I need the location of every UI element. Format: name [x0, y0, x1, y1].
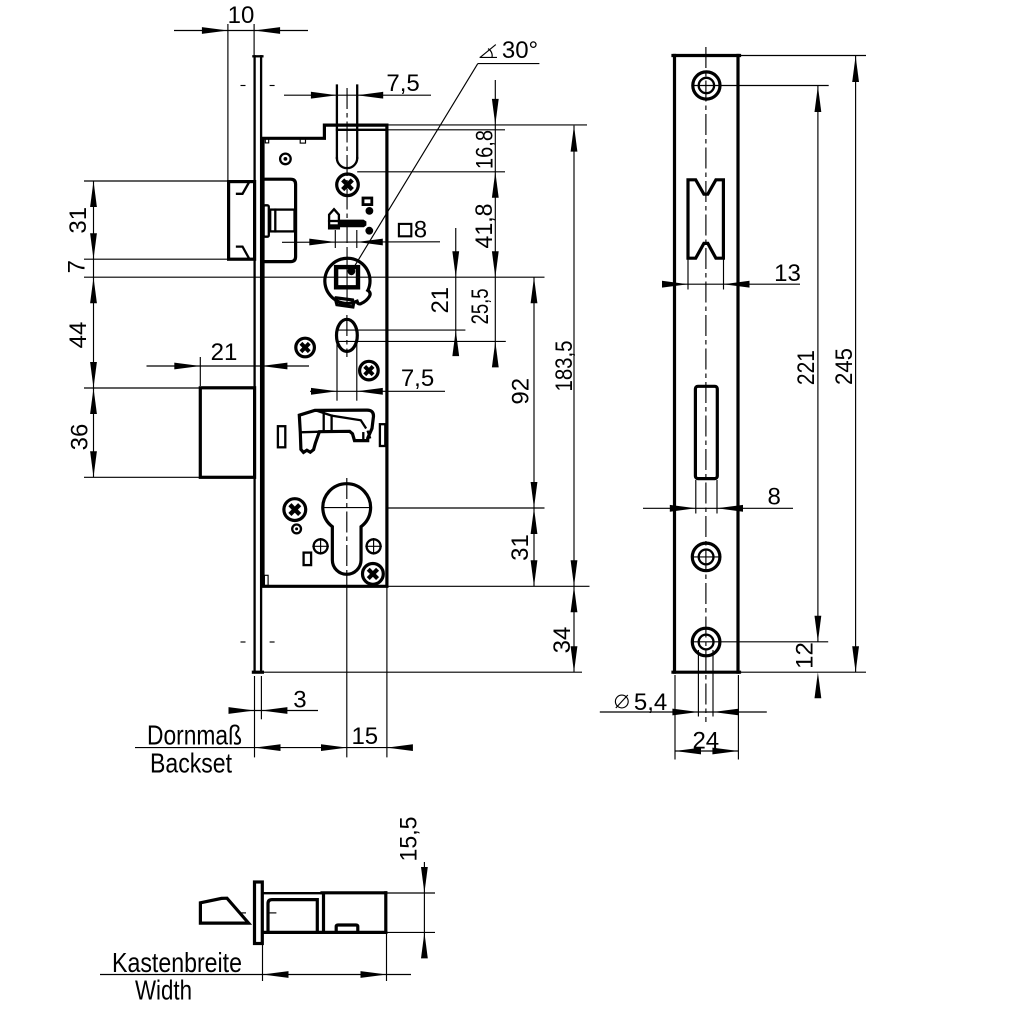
svg-text:41,8: 41,8 [471, 204, 498, 249]
change lever outline [299, 410, 373, 452]
dot 1 [366, 207, 374, 215]
faceplate centerline dashes top screw [241, 85, 275, 87]
latch spool opening [688, 180, 723, 258]
svg-text:34: 34 [549, 627, 576, 654]
small square with hole [363, 198, 372, 205]
Kastenbreite Width dimension [100, 933, 411, 1006]
case tab top-left 1 [265, 138, 268, 143]
svg-text:31: 31 [65, 207, 92, 234]
dimension 21 vertical [427, 228, 459, 356]
vertical rod at top [337, 86, 357, 169]
rod centerline [346, 88, 348, 250]
dimension square 8 [282, 216, 440, 248]
dimension 8 [643, 480, 793, 514]
svg-text:31: 31 [507, 534, 534, 561]
dimension 245 line [831, 56, 859, 672]
follower leader dot [348, 267, 356, 275]
plate centerline [705, 47, 707, 722]
dimension diameter 5,4 [600, 650, 767, 717]
faceplate bottom extension [262, 671, 582, 673]
svg-text:8: 8 [768, 484, 781, 511]
svg-text:3: 3 [293, 687, 306, 714]
faceplate plate outline [673, 56, 740, 673]
oval slot [337, 319, 358, 351]
dimension 3 [229, 676, 319, 757]
right-view top extension [739, 55, 866, 57]
dimension 15,5 [386, 817, 435, 959]
svg-text:92: 92 [508, 378, 535, 405]
latch tail divider [274, 210, 276, 232]
side latch housing [268, 900, 317, 932]
svg-text:183,5: 183,5 [551, 341, 578, 392]
svg-text:21: 21 [211, 339, 238, 366]
left chain dimension line [90, 181, 97, 477]
latch body inside case [263, 179, 296, 261]
svg-text:10: 10 [228, 2, 255, 29]
screw S2 [296, 338, 315, 357]
hole H2 [365, 538, 382, 555]
svg-text:7: 7 [64, 260, 91, 273]
svg-text:8: 8 [414, 216, 427, 243]
cylinder centerline extension down [346, 575, 348, 758]
latch head block [229, 182, 255, 260]
spring head [329, 209, 339, 228]
side faceplate bar [255, 882, 263, 944]
svg-text:44: 44 [65, 322, 92, 349]
side latch centerline dashes [238, 912, 276, 914]
follower foot tab [336, 298, 354, 307]
dimension 221 / 12 line [791, 86, 821, 698]
right-view bottom extension [739, 671, 866, 673]
lever inner vertical 2 [330, 416, 332, 430]
lock case outline [263, 125, 387, 586]
oval centerline [346, 315, 348, 357]
svg-text:Kastenbreite: Kastenbreite [112, 947, 242, 978]
case top inner wall line [337, 129, 387, 131]
svg-text:221: 221 [793, 350, 820, 385]
dimension 92 / 31 line [507, 277, 537, 586]
case tab bottom-left [264, 575, 268, 585]
follower square hole [336, 267, 358, 287]
centerline through follower [346, 250, 348, 307]
latch bevel mark bottom [237, 247, 249, 259]
dimension 7,5 lower [310, 336, 445, 401]
svg-text:245: 245 [831, 348, 858, 385]
svg-text:25,5: 25,5 [467, 288, 494, 324]
lever inner right diagonal [368, 432, 370, 438]
side case body [262, 893, 386, 933]
svg-text:5,4: 5,4 [634, 689, 667, 716]
svg-text:30°: 30° [502, 37, 538, 64]
guide slot right [380, 424, 385, 446]
svg-text:16,8: 16,8 [472, 130, 499, 169]
screw S1 [337, 174, 359, 196]
right chain ref lines [336, 125, 590, 586]
side latch wedge [200, 898, 248, 923]
svg-text:21: 21 [427, 287, 454, 314]
lever inner right vertical [362, 433, 364, 441]
Dornmass Backset dimension [135, 586, 413, 778]
latch bevel mark top [237, 183, 249, 194]
plate screw hole mid [691, 543, 722, 571]
dimension 7,5 top [284, 70, 431, 98]
dimension 183,5 / 34 line [549, 126, 578, 673]
svg-text:7,5: 7,5 [401, 365, 434, 392]
pin P2 [292, 525, 301, 534]
case tab top-left 2 [300, 138, 305, 143]
plate screw hole top [693, 72, 829, 99]
lever foot top edge [300, 431, 319, 434]
screw S5 [363, 564, 384, 585]
guide slot left [278, 426, 285, 447]
leader 30 deg [351, 37, 539, 271]
svg-text:Dornmaß: Dornmaß [147, 719, 242, 750]
side divider line [322, 893, 325, 931]
euro cylinder profile [323, 484, 371, 575]
small rect near cylinder [304, 553, 312, 566]
dimension 16,8 / 41,8 / 25,5 line [492, 80, 499, 367]
spring bar [339, 220, 366, 228]
svg-text:15: 15 [351, 723, 378, 750]
lever inner vertical 1 [323, 411, 325, 430]
latch tail box [270, 210, 294, 232]
dimension 10 [174, 2, 308, 181]
svg-text:13: 13 [774, 260, 801, 287]
deadbolt block [200, 388, 254, 478]
follower cam lobe [357, 290, 370, 304]
faceplate front-view strip [253, 56, 262, 672]
dot 2 [365, 227, 373, 235]
side bump tab [336, 925, 358, 931]
plate screw hole bottom [692, 628, 828, 656]
dimension 13 [662, 258, 801, 289]
hole H1 [312, 538, 329, 555]
faceplate centerline dashes bottom screw [241, 641, 275, 643]
screw S3 [360, 361, 379, 380]
svg-text:7,5: 7,5 [386, 70, 419, 97]
svg-text:36: 36 [66, 424, 93, 451]
dimension 21 deadbolt [147, 339, 310, 386]
follower circle [325, 258, 370, 303]
pin above latch [280, 154, 291, 165]
cylinder crosshair [322, 507, 371, 509]
left chain extension lines [84, 181, 545, 477]
dimension 24 [675, 675, 738, 760]
svg-text:12: 12 [791, 642, 818, 669]
deadbolt opening [695, 386, 717, 478]
svg-text:Backset: Backset [150, 747, 232, 778]
svg-text:24: 24 [692, 727, 719, 754]
lever inner diagonal top [317, 411, 366, 428]
screw S4 [284, 499, 306, 521]
svg-text:15,5: 15,5 [396, 817, 423, 862]
cylinder centerline [346, 478, 348, 575]
svg-text:Width: Width [135, 975, 192, 1006]
latch body guide rect [264, 205, 269, 236]
